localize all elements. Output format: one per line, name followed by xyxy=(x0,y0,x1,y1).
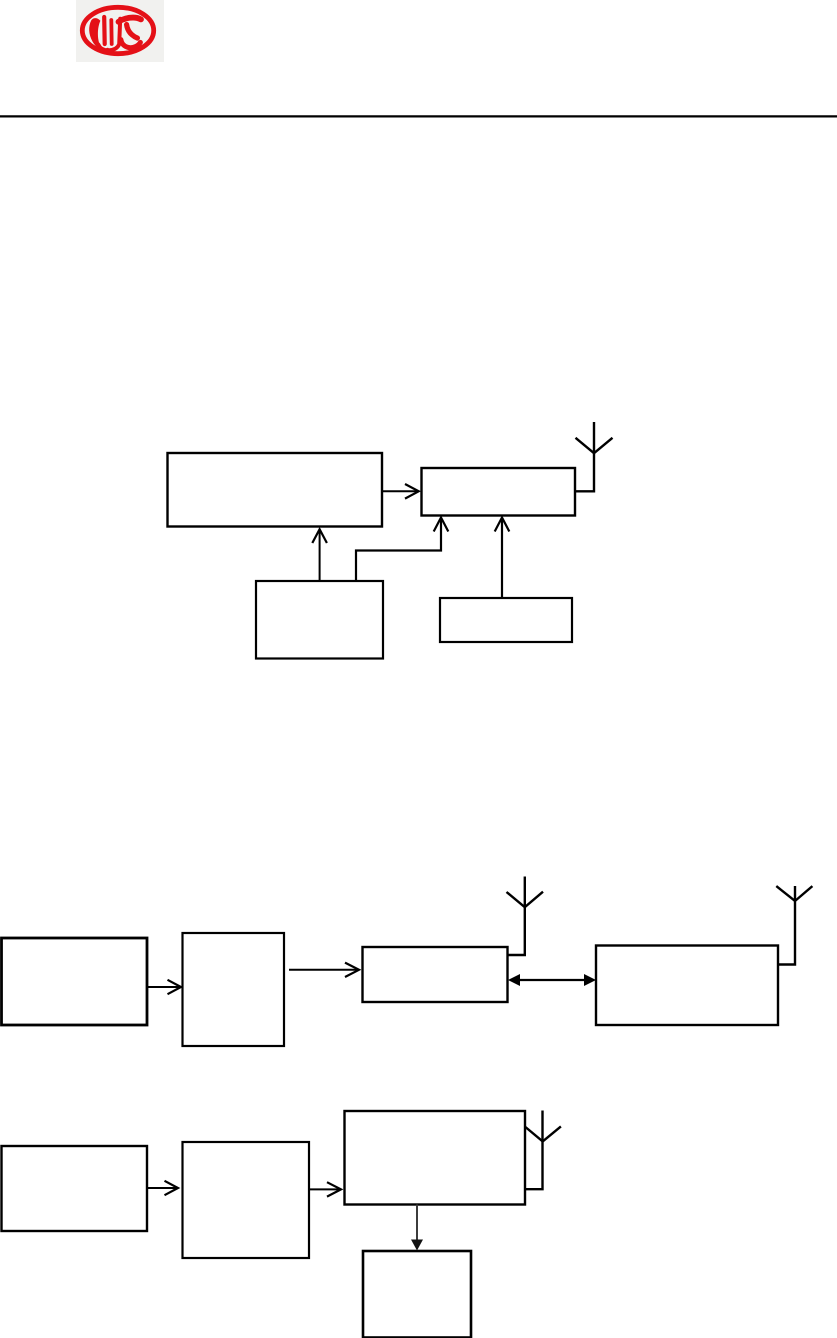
company logo WS xyxy=(76,0,164,62)
box D2 (diagram 3 second) xyxy=(183,1142,310,1258)
wire B3 to B1 arrow xyxy=(312,529,327,581)
box D3 (diagram 3 transmitter) xyxy=(345,1111,526,1205)
box C2 (diagram 2 second) xyxy=(183,933,285,1046)
wire C1 to C2 arrow xyxy=(147,980,181,994)
wire D1 to D2 arrow xyxy=(147,1181,178,1195)
box D1 (diagram 3 left) xyxy=(2,1146,148,1231)
header rule xyxy=(0,115,837,117)
box B1 (diagram 1 main left) xyxy=(168,453,383,527)
wire C2 to C3 arrow xyxy=(289,963,359,977)
box C1 (diagram 2 left) xyxy=(2,938,148,1025)
box C3 (diagram 2 transmitter) xyxy=(363,947,508,1002)
antenna A4 xyxy=(525,1111,561,1190)
antenna A3 xyxy=(776,886,812,965)
wire B4 to B2 arrow xyxy=(495,518,510,599)
box B2 (diagram 1 right, RF) xyxy=(422,468,576,516)
box B3 (diagram 1 bottom left) xyxy=(256,581,383,659)
box B4 (diagram 1 bottom right) xyxy=(440,598,572,642)
wire C3 to C4 double arrow xyxy=(508,974,596,986)
antenna A1 xyxy=(575,422,613,491)
box D4 (diagram 3 bottom) xyxy=(363,1251,471,1338)
wire D3 to D4 arrow xyxy=(411,1205,423,1251)
antenna A2 xyxy=(507,877,544,956)
wire B1 to B2 arrow xyxy=(382,484,419,499)
wire D2 to D3 arrow xyxy=(309,1182,341,1196)
wire B3 elbow to B2 arrow xyxy=(356,518,448,582)
box C4 (diagram 2 receiver) xyxy=(596,946,778,1026)
